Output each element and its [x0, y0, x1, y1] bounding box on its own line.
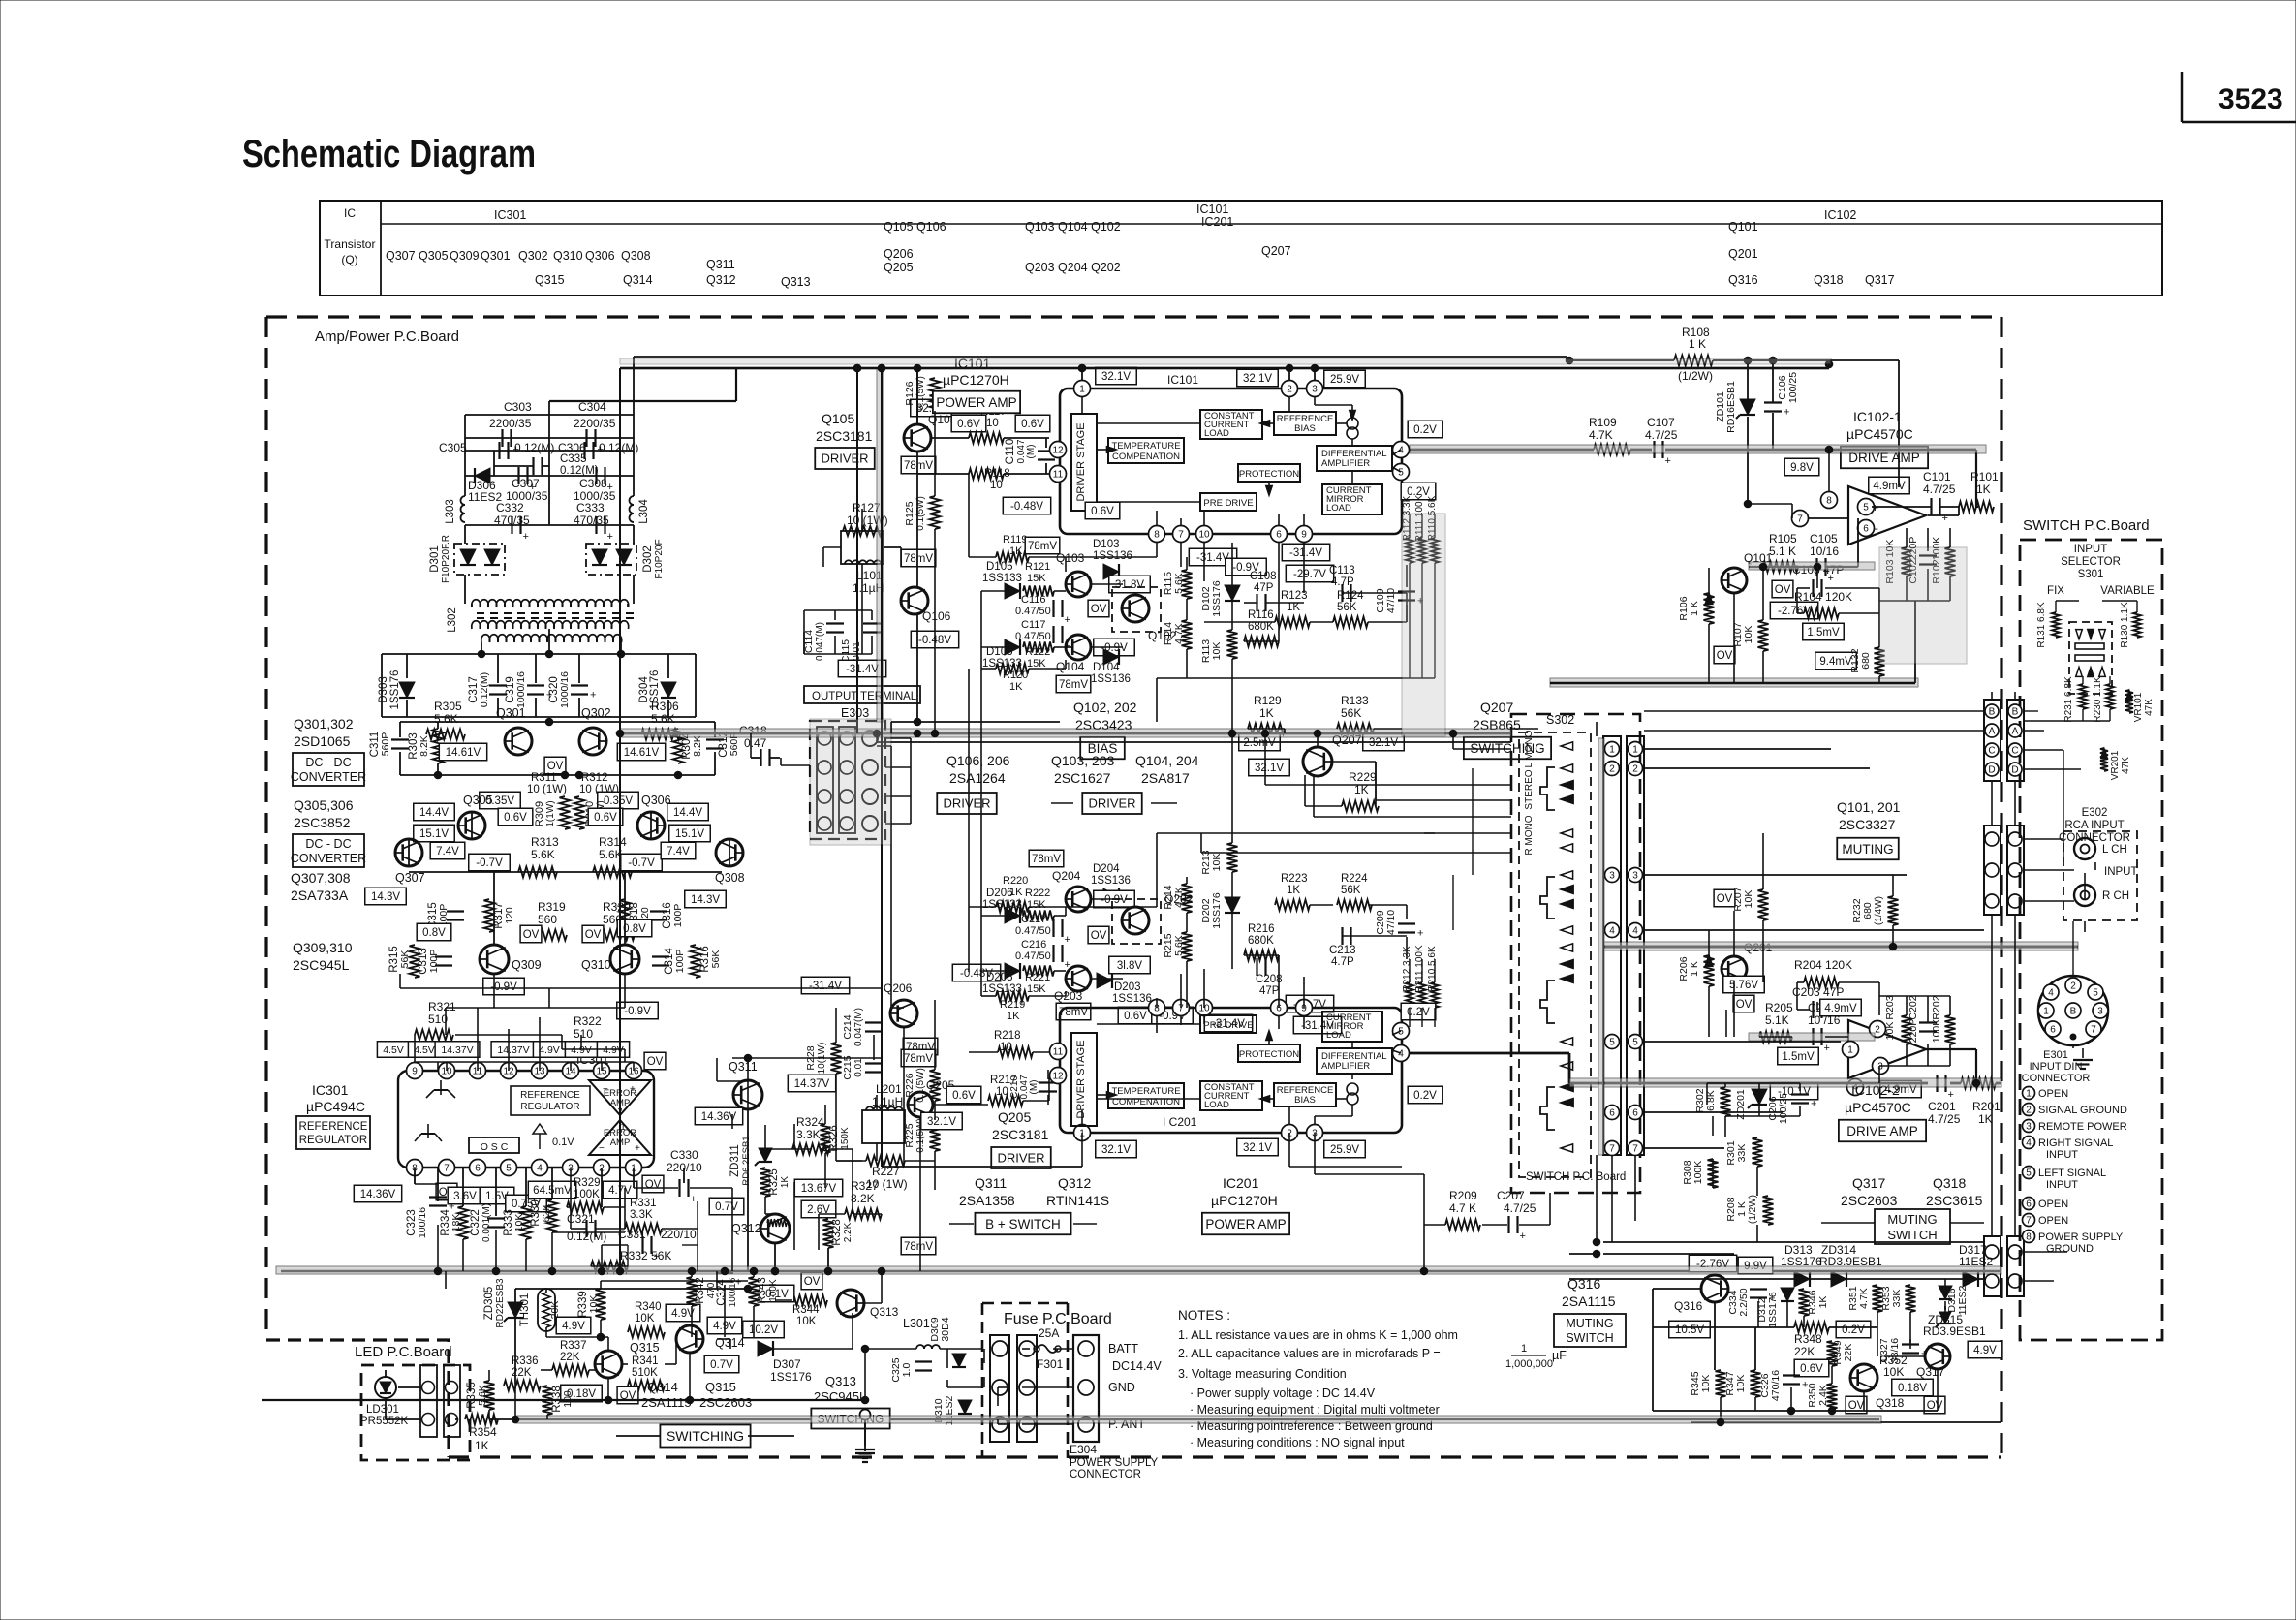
svg-text:3. Voltage measuring Condi: 3. Voltage measuring Condition — [1178, 1367, 1347, 1381]
svg-text:6: 6 — [475, 1164, 481, 1174]
svg-text:Q317: Q317 — [1852, 1175, 1885, 1191]
resistor R319 560 — [528, 900, 567, 941]
svg-text:LOAD: LOAD — [1204, 1100, 1229, 1110]
resistor R301 33K — [1725, 1137, 1763, 1167]
DIN connector E301 — [2038, 976, 2108, 1045]
svg-text:Q305: Q305 — [463, 794, 493, 807]
svg-text:TH301: TH301 — [519, 1293, 531, 1327]
svg-text:100K: 100K — [574, 1189, 600, 1200]
voltage 4.9mV — [1869, 477, 1910, 494]
resistor R123 1K — [1275, 590, 1310, 628]
capacitor C317 — [468, 654, 507, 717]
IC102-1 pin 5 — [1858, 499, 1875, 515]
IC201 outline — [1060, 1008, 1402, 1133]
svg-text:2. ALL capacitance values: 2. ALL capacitance values are in microfa… — [1178, 1347, 1441, 1360]
resistor R101 1K — [1959, 470, 1999, 513]
svg-text:14.36V: 14.36V — [701, 1111, 737, 1123]
svg-text:LOAD: LOAD — [1326, 1030, 1351, 1041]
transformer L302 winding bottom — [481, 635, 622, 642]
svg-text:1K: 1K — [475, 1439, 489, 1452]
svg-text:5.6K: 5.6K — [1173, 935, 1185, 956]
svg-text:C333: C333 — [576, 501, 605, 514]
svg-text:78mV: 78mV — [904, 1053, 933, 1065]
svg-text:CONNECTOR: CONNECTOR — [1070, 1469, 1141, 1480]
svg-text:+: + — [530, 482, 536, 493]
svg-text:R104 120K: R104 120K — [1794, 590, 1852, 604]
IC301 bottom pins — [407, 1160, 642, 1176]
svg-text:IC: IC — [344, 206, 356, 220]
thermistor TH301 20K — [519, 1289, 561, 1331]
resistor R114 4.7K — [1163, 620, 1193, 649]
capacitor C116 0.47/50 — [1015, 594, 1070, 626]
svg-text:DRIVER STAGE: DRIVER STAGE — [1075, 1040, 1087, 1118]
resistor R320 560 — [596, 900, 635, 941]
svg-text:BATT: BATT — [1108, 1342, 1138, 1355]
resistor R304 8.2K — [673, 729, 704, 763]
transistor Q202 — [1112, 892, 1194, 944]
svg-text:E303: E303 — [841, 706, 869, 720]
svg-text:R305: R305 — [434, 700, 462, 713]
svg-text:2SC3327: 2SC3327 — [1839, 817, 1896, 832]
voltage 78mV — [1056, 1003, 1091, 1020]
svg-text:1SS136: 1SS136 — [1091, 673, 1131, 685]
svg-text:R116: R116 — [1248, 609, 1274, 621]
svg-text:· Measuring equipment :: · Measuring equipment : Digital multi vo… — [1190, 1403, 1440, 1417]
transistor Q316 — [1674, 1275, 1729, 1313]
svg-text:R230 1.1K: R230 1.1K — [2093, 676, 2103, 723]
voltage 4.5V — [377, 1042, 409, 1058]
svg-text:Q317: Q317 — [1865, 273, 1895, 287]
svg-text:30D4: 30D4 — [940, 1317, 951, 1341]
voltage 4.9V — [1968, 1341, 2002, 1358]
svg-text:µPC4570C: µPC4570C — [1845, 1100, 1911, 1115]
voltage 1.5V — [480, 1187, 514, 1204]
svg-text:OUTPUT TERMINAL: OUTPUT TERMINAL — [812, 691, 917, 702]
table label Transistor (Q) — [325, 237, 376, 266]
voltage -0.9V — [483, 978, 525, 995]
diode D205 1SS133 — [982, 963, 1022, 995]
svg-text:100K: 100K — [768, 1279, 779, 1302]
svg-text:14.4V: 14.4V — [673, 807, 702, 819]
LED P.C.Board dashed border — [361, 1365, 470, 1460]
svg-text:5.6K: 5.6K — [651, 712, 675, 726]
IC101 pin 8 — [1149, 526, 1165, 543]
svg-text:L201: L201 — [876, 1082, 902, 1096]
svg-text:8.2K: 8.2K — [419, 735, 430, 757]
label E303 — [841, 706, 869, 720]
diode D202 1SS176 — [1200, 892, 1240, 929]
svg-text:(1/2W): (1/2W) — [1678, 369, 1713, 383]
resistor R327 8.2K — [845, 1179, 882, 1220]
capacitor C214 0.047(M) — [842, 1008, 883, 1046]
voltage 0.2V — [1401, 483, 1436, 500]
svg-text:I C201: I C201 — [1163, 1115, 1197, 1129]
svg-text:B: B — [2070, 1007, 2077, 1017]
transistor Q313b — [837, 1290, 899, 1319]
voltage 2.6V — [801, 1200, 836, 1218]
voltage 32.1V — [921, 1112, 963, 1130]
svg-text:TEMPERATURE: TEMPERATURE — [1111, 1086, 1180, 1097]
voltage 0V — [1088, 926, 1109, 944]
label Q101,201 2SC3327 MUTING — [1837, 799, 1901, 859]
svg-text:2.2/50: 2.2/50 — [1738, 1288, 1750, 1316]
resistor R213 10K — [1200, 843, 1238, 875]
voltage 0V — [642, 1175, 664, 1193]
resistor R120 1K — [996, 664, 1029, 694]
svg-text:C217: C217 — [1021, 914, 1046, 925]
svg-text:C113: C113 — [1329, 565, 1355, 576]
svg-text:Q307,308: Q307,308 — [291, 870, 351, 886]
voltage 31.8V — [1109, 576, 1151, 593]
svg-text:Q101, 201: Q101, 201 — [1837, 799, 1901, 815]
resistor R230 1.1K — [2093, 676, 2114, 723]
resistor R108 1K (1/2W) — [1674, 326, 1713, 383]
resistor R221 15K — [1023, 966, 1054, 996]
resistor R351 4.7K — [1847, 1285, 1883, 1312]
svg-text:· Power supply voltage :: · Power supply voltage : DC 14.4V — [1190, 1386, 1376, 1400]
svg-text:D204: D204 — [1093, 863, 1120, 875]
svg-text:POWER SUPPLY: POWER SUPPLY — [2038, 1231, 2124, 1243]
svg-text:2SA1115: 2SA1115 — [1562, 1293, 1616, 1309]
wire top bus 2 — [634, 368, 736, 401]
svg-text:Q313: Q313 — [781, 275, 811, 289]
svg-text:0.047(M): 0.047(M) — [815, 622, 825, 661]
svg-text:R231 6.8K: R231 6.8K — [2063, 676, 2074, 723]
wire — [386, 1370, 515, 1419]
svg-text:R129: R129 — [1254, 694, 1282, 707]
svg-text:1SS136: 1SS136 — [1093, 550, 1132, 562]
transistor Q309 — [479, 945, 541, 974]
resistor R347 10K — [1724, 1370, 1761, 1397]
voltage 9.9V — [1738, 1257, 1773, 1274]
svg-text:56K: 56K — [710, 950, 722, 969]
svg-text:OV: OV — [1717, 650, 1733, 662]
svg-text:R218: R218 — [994, 1030, 1021, 1042]
label BATT DC14.4V — [1108, 1342, 1162, 1373]
svg-text:µF: µF — [1552, 1349, 1567, 1362]
svg-text:680: 680 — [1860, 652, 1872, 670]
label Q309,310 2SC945L — [293, 940, 353, 973]
resistor R102 100K — [1931, 537, 1956, 584]
transistor Q314 — [676, 1325, 745, 1353]
svg-text:R204 120K: R204 120K — [1794, 958, 1852, 972]
resistor R127 10(1W) — [841, 501, 888, 564]
transistor Q311 — [729, 1060, 762, 1109]
svg-text:POWER AMP: POWER AMP — [1205, 1217, 1286, 1231]
voltage -0.9V — [617, 1002, 659, 1019]
svg-text:0.2V: 0.2V — [1407, 1007, 1430, 1018]
svg-text:OPEN: OPEN — [2038, 1199, 2068, 1210]
label REFERENCE REGULATOR inner — [511, 1086, 590, 1115]
svg-text:Q309: Q309 — [512, 958, 542, 972]
svg-text:C215: C215 — [842, 1055, 853, 1079]
resistor R340 10K — [628, 1301, 665, 1338]
svg-text:32.1V: 32.1V — [1369, 737, 1398, 749]
S302 pin 6 — [1605, 1106, 1643, 1120]
transistor Q301 — [496, 706, 532, 755]
svg-text:8: 8 — [1826, 496, 1832, 507]
diode D103 1SS136 — [1093, 539, 1132, 579]
table IC102 — [1824, 208, 1856, 222]
svg-text:1.5mV: 1.5mV — [1807, 627, 1840, 639]
svg-text:3: 3 — [1609, 871, 1615, 882]
svg-text:11ES2: 11ES2 — [1957, 1285, 1969, 1315]
svg-text:Q316: Q316 — [1728, 273, 1758, 287]
svg-text:2SC945L: 2SC945L — [293, 957, 350, 973]
voltage 0V — [436, 1183, 457, 1200]
svg-text:100/25: 100/25 — [1787, 372, 1799, 403]
zener ZD101 RD16ESB1 — [1715, 357, 1755, 504]
svg-text:FIX: FIX — [2047, 585, 2064, 597]
resistor R121 15K — [1023, 561, 1054, 597]
svg-text:Q301: Q301 — [496, 706, 526, 720]
svg-text:0.6V: 0.6V — [1800, 1363, 1823, 1375]
IC102-2 pin 3 — [1873, 1058, 1889, 1075]
voltage -0.48V — [952, 964, 1000, 981]
svg-text:100P: 100P — [672, 904, 684, 928]
svg-text:15K: 15K — [1027, 899, 1046, 911]
svg-text:14.37V: 14.37V — [794, 1078, 830, 1090]
svg-text:2SC3852: 2SC3852 — [294, 815, 351, 830]
svg-text:100/25: 100/25 — [1778, 1093, 1789, 1124]
svg-text:BIAS: BIAS — [1294, 1095, 1316, 1106]
title Schematic Diagram — [242, 133, 536, 175]
diode bridge D301 F10P20F.R — [429, 535, 505, 583]
svg-text:470/16: 470/16 — [1770, 1370, 1782, 1401]
label DC-DC CONVERTER 2 — [291, 834, 366, 867]
voltage 0V — [617, 1386, 638, 1404]
svg-text:+: + — [607, 482, 613, 493]
svg-text:B: B — [2012, 707, 2019, 718]
capacitor C313 100P — [418, 948, 452, 975]
svg-text:1: 1 — [1632, 745, 1638, 756]
svg-text:R224: R224 — [1341, 873, 1368, 885]
diode D106 1SS133 — [982, 639, 1022, 670]
capacitor C314 100P — [652, 948, 686, 975]
svg-text:78mV: 78mV — [1059, 679, 1088, 691]
svg-text:· Measuring conditions :: · Measuring conditions : NO signal input — [1190, 1436, 1405, 1449]
IC internal wires — [1082, 397, 1473, 1225]
IC101 driver stage box — [1071, 414, 1097, 511]
svg-text:5.6K: 5.6K — [434, 712, 458, 726]
label Q106,206 2SA1264 DRIVER — [937, 753, 1009, 814]
label Q105 2SC3181 DRIVER — [815, 411, 875, 469]
diode D303 1SS176 — [378, 654, 415, 717]
svg-text:11: 11 — [1053, 1047, 1064, 1058]
svg-text:D302: D302 — [642, 545, 654, 573]
page number 3523 — [2182, 72, 2296, 122]
label INPUT SELECTOR S301 — [2061, 544, 2121, 580]
label Q307,308 2SA733A — [291, 870, 351, 903]
svg-text:R336: R336 — [512, 1355, 539, 1367]
svg-text:µPC1270H: µPC1270H — [1211, 1193, 1278, 1208]
svg-text:C116: C116 — [1021, 594, 1045, 606]
svg-text:3.6V: 3.6V — [453, 1191, 477, 1202]
svg-text:Transistor: Transistor — [325, 237, 376, 251]
S302 connector columns — [1603, 736, 1644, 1155]
svg-text:R225: R225 — [904, 1123, 915, 1147]
svg-text:POWER AMP: POWER AMP — [936, 395, 1016, 410]
svg-text:R311: R311 — [531, 772, 557, 784]
interboard connector input left — [1984, 826, 2001, 915]
resistor R129 1K — [1248, 694, 1285, 734]
capacitor C321 0.12(M) — [567, 1212, 606, 1243]
resistor R349 22K — [1827, 1340, 1855, 1366]
table transistor row 2 — [884, 244, 1758, 261]
voltage 78mV — [1029, 850, 1064, 867]
resistor R209 4.7K — [1445, 1189, 1480, 1231]
wire muting rows lower — [1653, 1279, 2001, 1422]
output terminal E303 connector — [810, 721, 885, 839]
resistor R328 2.2K — [823, 1219, 854, 1248]
svg-text:10K: 10K — [1211, 854, 1223, 872]
svg-text:32.1V: 32.1V — [1243, 373, 1272, 385]
svg-text:0.6V: 0.6V — [1091, 506, 1114, 517]
capacitor C205 10/16 — [1759, 1001, 1841, 1054]
voltage 14.61V — [439, 743, 486, 761]
resistor R326 150K — [821, 1124, 852, 1153]
voltage -31.4V — [1293, 1016, 1341, 1034]
svg-text:Q105 Q106: Q105 Q106 — [884, 220, 946, 234]
svg-text:C105: C105 — [1810, 532, 1838, 545]
resistor R322 510 — [562, 1014, 602, 1055]
voltage 0V — [1714, 889, 1735, 907]
svg-text:2: 2 — [1609, 764, 1615, 775]
voltage 14.4V — [667, 803, 709, 821]
voltage 32.1V — [911, 399, 952, 417]
resistor R333 10K — [503, 1206, 532, 1239]
label Q301,302 2SD1065 — [294, 716, 354, 749]
IC101 current mirror load box — [1322, 484, 1382, 514]
diode D310 11ES2 — [933, 1395, 972, 1425]
transistor Q305 — [457, 794, 492, 839]
svg-text:1: 1 — [620, 1122, 625, 1133]
svg-text:Q104, 204: Q104, 204 — [1135, 753, 1199, 768]
label IC201 uPC1270H POWER AMP — [1202, 1175, 1289, 1234]
label IC301 uPC494C — [306, 1082, 365, 1114]
ground symbol main — [855, 1410, 875, 1463]
resistor R338 100 — [543, 1386, 574, 1415]
svg-text:REGULATOR: REGULATOR — [299, 1135, 368, 1146]
resistor R207 10K — [1732, 887, 1769, 920]
resistor R310 1(1W) — [574, 796, 607, 829]
S301 dashed box — [2069, 622, 2112, 694]
wire — [465, 525, 634, 604]
capacitor C101 4.7/25 — [1923, 470, 1956, 524]
svg-text:PRE DRIVE: PRE DRIVE — [1203, 1020, 1253, 1031]
resistor R315 56K — [388, 945, 420, 978]
resistor R119 1K — [996, 534, 1060, 563]
svg-text:15K: 15K — [1027, 573, 1046, 584]
capacitor C312 560P — [706, 722, 740, 775]
label IC102-1 uPC4570C DRIVE AMP — [1841, 409, 1928, 468]
voltage 14.61V — [617, 743, 665, 761]
svg-text:Q203 Q204 Q202: Q203 Q204 Q202 — [1025, 261, 1121, 274]
svg-text:DC14.4V: DC14.4V — [1112, 1359, 1162, 1373]
IC201 pin 9 — [1296, 1000, 1313, 1016]
svg-text:47P: 47P — [1254, 582, 1274, 594]
svg-text:C330: C330 — [670, 1148, 698, 1162]
svg-text:7: 7 — [1632, 1144, 1638, 1155]
svg-text:0.8V: 0.8V — [422, 927, 446, 939]
transistor Q205 — [907, 1078, 980, 1117]
diode D102 1SS176 — [1200, 580, 1240, 617]
resistor R124 56K — [1333, 590, 1368, 628]
resistor R133 56K — [1337, 694, 1374, 734]
resistor R309 1(1W) — [534, 796, 571, 829]
svg-text:R119: R119 — [1003, 534, 1027, 545]
transistor Q306 — [637, 794, 671, 839]
diode D203 1SS136 — [1097, 973, 1152, 1005]
svg-text:5: 5 — [1632, 1038, 1638, 1048]
voltage 5.76V — [1723, 976, 1765, 993]
IC102-1 pin 8 — [1821, 492, 1838, 509]
svg-text:1 K: 1 K — [1689, 601, 1700, 616]
svg-text:R320: R320 — [603, 900, 631, 914]
capacitor C330 220/10 — [667, 1148, 702, 1205]
svg-text:Q318: Q318 — [1876, 1396, 1905, 1410]
svg-text:8.2K: 8.2K — [692, 735, 703, 757]
IC101 current source symbol — [1347, 418, 1358, 439]
S302 outer dashed box — [1511, 714, 1640, 1193]
resistor R329 100K — [567, 1177, 604, 1213]
svg-text:10K: 10K — [1883, 1365, 1904, 1379]
svg-text:DC - DC: DC - DC — [305, 837, 351, 851]
label E304 POWER SUPPLY CONNECTOR — [1070, 1443, 1158, 1480]
svg-text:R223: R223 — [1281, 873, 1308, 885]
resistor R125 0.1(5W) — [904, 496, 941, 531]
transistor Q201 — [1721, 941, 1772, 981]
wire muting row — [1569, 1278, 1984, 1280]
svg-text:LD301: LD301 — [366, 1404, 399, 1416]
IC102-2 pin 4 — [1847, 1079, 1864, 1096]
svg-text:7: 7 — [444, 1164, 450, 1174]
label IC201 text — [1163, 1115, 1197, 1129]
svg-text:1SS133: 1SS133 — [982, 573, 1022, 584]
svg-text:R322: R322 — [574, 1014, 602, 1028]
svg-text:0.6V: 0.6V — [957, 419, 980, 430]
voltage -0.7V — [621, 854, 663, 871]
voltage -0.7V — [469, 854, 511, 871]
svg-text:0.2V: 0.2V — [1842, 1324, 1865, 1336]
svg-text:CONVERTER: CONVERTER — [291, 852, 366, 865]
resistor R337 22K — [552, 1340, 589, 1376]
wires main network — [415, 360, 2137, 1424]
label DC-DC CONVERTER 1 — [291, 753, 366, 786]
S302 inner dashed box — [1519, 732, 1591, 1177]
resistor R343 100K — [749, 1277, 780, 1306]
svg-text:+: + — [1942, 513, 1948, 524]
wire — [409, 812, 729, 945]
resistor R354 1K — [465, 1415, 498, 1453]
voltage 0V — [1714, 646, 1735, 664]
resistor R346 1K — [1799, 1289, 1830, 1316]
resistor R103 10K — [1884, 540, 1912, 584]
transistor Q317 — [1916, 1344, 1951, 1379]
svg-text:1K: 1K — [1009, 545, 1023, 557]
svg-text:S301: S301 — [2078, 569, 2104, 580]
svg-text:6: 6 — [1276, 530, 1282, 541]
svg-text:R326: R326 — [828, 1125, 840, 1152]
SWITCH P.C.Board dashed border — [2020, 540, 2162, 1340]
interboard connector B A C D left — [1984, 700, 2001, 781]
wire — [382, 654, 696, 717]
voltage 14.37V — [491, 1042, 536, 1058]
capacitor C304 — [574, 400, 616, 455]
S302 contact 3 — [1540, 981, 1555, 1023]
svg-text:0.047(M): 0.047(M) — [853, 1008, 864, 1046]
IC101 pin 2 — [1282, 381, 1298, 397]
